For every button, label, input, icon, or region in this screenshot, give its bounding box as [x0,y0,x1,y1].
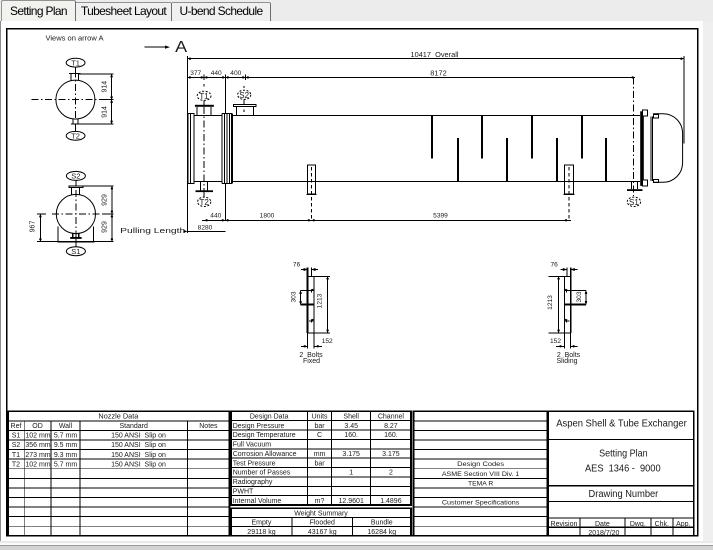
svg-text:T2: T2 [71,132,80,141]
view label Views on arrow A [46,35,104,42]
svg-text:T2: T2 [12,461,20,468]
label S2 view [66,171,85,186]
channel barrel [194,115,221,181]
bottom panel edge [0,541,713,543]
svg-text:Units: Units [312,414,328,421]
label S1 view [66,247,85,256]
arrow A marker [145,39,188,56]
support detail fixed dimension 76 [293,261,318,271]
svg-text:Channel: Channel [378,414,405,421]
svg-text:Number of Passes: Number of Passes [233,470,291,477]
support detail fixed dimension 1213 [316,276,329,333]
centerline crosshair view 2 [52,190,103,237]
svg-text:1800: 1800 [260,213,275,220]
tab U-bend Schedule [172,2,271,21]
svg-text:5.7 mm: 5.7 mm [54,461,78,468]
svg-text:T1: T1 [199,92,209,101]
svg-text:152: 152 [322,338,333,345]
svg-text:16284 kg: 16284 kg [367,529,396,536]
svg-text:S2: S2 [71,172,80,181]
support detail sliding baseplate [549,276,571,333]
dimension 8280 pulling length [120,224,225,234]
dimension line 377 440 400 8172 [187,70,635,80]
dished head shell cover [653,114,683,183]
svg-text:440: 440 [211,70,222,77]
svg-text:967: 967 [30,221,37,233]
svg-text:76: 76 [551,261,559,268]
nozzle stub S2 view [69,186,83,195]
svg-text:OD: OD [32,423,43,430]
svg-text:App.: App. [676,521,690,528]
extension line shell flange face [224,77,226,220]
svg-text:150 ANSI Slip on: 150 ANSI Slip on [111,442,166,449]
svg-text:mm: mm [314,451,326,458]
svg-text:T1: T1 [71,58,80,67]
svg-text:T2: T2 [200,198,210,207]
svg-text:12.9601: 12.9601 [339,498,364,505]
tab Setting Plan (active) [1,0,76,21]
nozzle stub S1 view [70,233,81,246]
svg-text:Date: Date [595,521,610,528]
label T1 view [66,58,85,67]
nozzle stub T2 view [71,119,80,131]
svg-text:Test Pressure: Test Pressure [233,460,276,467]
svg-text:440: 440 [210,213,221,220]
baffles [432,116,606,181]
svg-text:C: C [317,432,322,439]
svg-text:A: A [175,39,187,56]
table Design Data [231,411,411,505]
dimension line 440 1800 5399 [202,213,571,222]
svg-text:AES 1346 - 9000: AES 1346 - 9000 [585,464,661,475]
svg-text:T1: T1 [12,452,20,459]
svg-text:Shell: Shell [343,414,359,421]
support detail sliding dimension 76 [551,261,578,271]
support detail fixed dimension 152 [301,333,333,348]
svg-text:914: 914 [102,81,109,93]
support detail sliding dimension 303 [576,291,587,305]
svg-text:PWHT: PWHT [233,488,254,495]
view circle T1/T2 shell section [56,80,95,119]
svg-text:400: 400 [230,70,241,77]
saddle support fixed [306,165,316,220]
svg-text:m?: m? [315,498,325,505]
svg-text:Ref: Ref [11,423,22,430]
svg-text:S2: S2 [239,91,249,100]
svg-text:160.: 160. [384,432,398,439]
svg-text:10417 Overall: 10417 Overall [411,52,459,59]
svg-text:Customer Specifications: Customer Specifications [442,499,520,506]
support detail sliding label [556,352,580,365]
svg-text:Standard: Standard [119,423,148,430]
svg-text:Drawing Number: Drawing Number [589,489,659,500]
shell barrel [233,115,641,181]
svg-text:Sliding: Sliding [556,358,577,365]
nozzle S2 centerline [243,86,245,112]
extension line channel left face [186,56,188,233]
svg-text:Design Temperature: Design Temperature [233,432,296,439]
support detail sliding anchor bolt [567,268,571,334]
svg-text:Nozzle Data: Nozzle Data [98,414,138,421]
svg-text:Internal Volume: Internal Volume [233,498,282,505]
nozzle T2 [196,182,214,207]
nozzle T1 centerline [203,84,205,190]
dimension 914 upper [79,74,114,124]
svg-text:9.3 mm: 9.3 mm [54,452,78,459]
channel to shell flange pair [222,113,232,183]
svg-text:1: 1 [349,470,353,477]
svg-text:929: 929 [101,221,108,233]
svg-text:150 ANSI Slip on: 150 ANSI Slip on [111,433,166,440]
saddle support view 2 [57,226,94,241]
svg-text:Corrosion Allowance: Corrosion Allowance [233,451,297,458]
svg-text:Revision: Revision [551,521,578,528]
svg-text:TEMA R: TEMA R [468,480,493,487]
support detail sliding dimension 1213 [547,276,560,333]
title block [548,411,694,537]
svg-text:8280: 8280 [198,224,213,231]
nozzle stub T1 view [69,67,81,81]
svg-text:1213: 1213 [316,293,323,308]
svg-text:Full Vacuum: Full Vacuum [233,442,272,449]
centerline crosshair view 1 [32,71,105,120]
support detail sliding bolt marks [564,289,569,323]
svg-text:Notes: Notes [199,423,218,430]
channel left flange [188,113,194,183]
svg-text:Design Data: Design Data [250,414,289,421]
support detail fixed label [299,352,323,365]
svg-text:Wall: Wall [59,423,73,430]
svg-text:102 mm: 102 mm [25,433,50,440]
dimension 929 upper [83,186,113,242]
support detail sliding dimension 152 [550,333,577,348]
svg-text:S1: S1 [12,433,21,440]
svg-text:Pulling Length: Pulling Length [120,226,185,235]
svg-text:5399: 5399 [433,213,448,220]
svg-text:3.175: 3.175 [342,451,360,458]
tab Tubesheet Layout [76,2,172,21]
svg-text:S2: S2 [12,442,21,449]
svg-text:Fixed: Fixed [303,358,320,365]
svg-text:Views on arrow A: Views on arrow A [46,35,104,42]
svg-text:29118 kg: 29118 kg [247,529,275,536]
svg-text:bar: bar [314,423,325,430]
dimension 929 lower [101,215,113,240]
support detail fixed anchor bolt [308,268,312,334]
svg-text:S1: S1 [629,198,639,207]
support detail fixed dimension 303 [291,291,302,305]
svg-text:ASME Section VIII Div. 1: ASME Section VIII Div. 1 [442,471,520,478]
svg-text:Setting Plan: Setting Plan [599,448,648,459]
table design codes specifications [414,411,548,536]
svg-text:Weight Summary: Weight Summary [294,510,348,517]
svg-text:76: 76 [293,261,301,268]
saddle support sliding [564,165,575,220]
shell right flange [640,110,658,186]
svg-text:43167 kg: 43167 kg [308,529,337,536]
svg-text:2: 2 [389,470,393,477]
svg-text:150 ANSI Slip on: 150 ANSI Slip on [111,461,166,468]
svg-text:273 mm: 273 mm [25,452,50,459]
svg-text:Chk.: Chk. [655,521,669,528]
svg-text:303: 303 [576,291,583,302]
table Nozzle Data [8,411,229,536]
dimension 914 lower [102,101,113,123]
svg-text:102 mm: 102 mm [25,461,50,468]
svg-text:356 mm: 356 mm [25,442,50,449]
svg-text:3.45: 3.45 [344,423,358,430]
svg-text:9.5 mm: 9.5 mm [54,442,78,449]
svg-text:152: 152 [550,338,561,345]
support detail fixed baseplate [308,276,330,333]
svg-text:bar: bar [314,460,325,467]
nozzle T1 [195,91,214,115]
support detail sliding bolt hole ties [564,291,586,305]
label T2 view [66,131,85,140]
svg-text:5.7 mm: 5.7 mm [54,433,78,440]
dimension 10417 Overall [187,52,684,60]
svg-text:Design Codes: Design Codes [457,461,505,468]
shell right end centerline [633,77,635,196]
svg-text:150 ANSI Slip on: 150 ANSI Slip on [111,452,166,459]
svg-text:1.4896: 1.4896 [380,498,402,505]
view circle S1/S2 shell section [56,194,95,233]
svg-text:377: 377 [190,70,201,77]
svg-text:8172: 8172 [430,70,447,77]
table Weight Summary [231,508,411,536]
svg-text:Flooded: Flooded [310,520,335,527]
svg-text:8.27: 8.27 [384,423,398,430]
nozzle S1 [627,182,643,207]
svg-text:S1: S1 [71,247,80,256]
svg-text:929: 929 [101,194,108,206]
svg-text:914: 914 [102,106,109,118]
nozzle S2 [233,90,256,115]
extension line right head apex [683,56,685,143]
support detail fixed bolt hole ties [301,291,314,305]
svg-text:1213: 1213 [547,295,554,310]
svg-text:303: 303 [291,291,298,302]
dimension 967 [30,214,58,242]
svg-text:Bundle: Bundle [371,520,393,527]
svg-text:2018/7/20: 2018/7/20 [588,530,619,537]
support detail fixed bolt marks [309,289,314,323]
svg-text:3.175: 3.175 [382,451,400,458]
svg-text:160.: 160. [344,432,358,439]
svg-text:Design Pressure: Design Pressure [233,423,285,430]
svg-text:Empty: Empty [252,520,272,527]
svg-text:Radiography: Radiography [233,479,273,486]
svg-text:Aspen Shell & Tube Exchanger: Aspen Shell & Tube Exchanger [556,419,687,430]
svg-text:Dwg.: Dwg. [630,521,646,528]
